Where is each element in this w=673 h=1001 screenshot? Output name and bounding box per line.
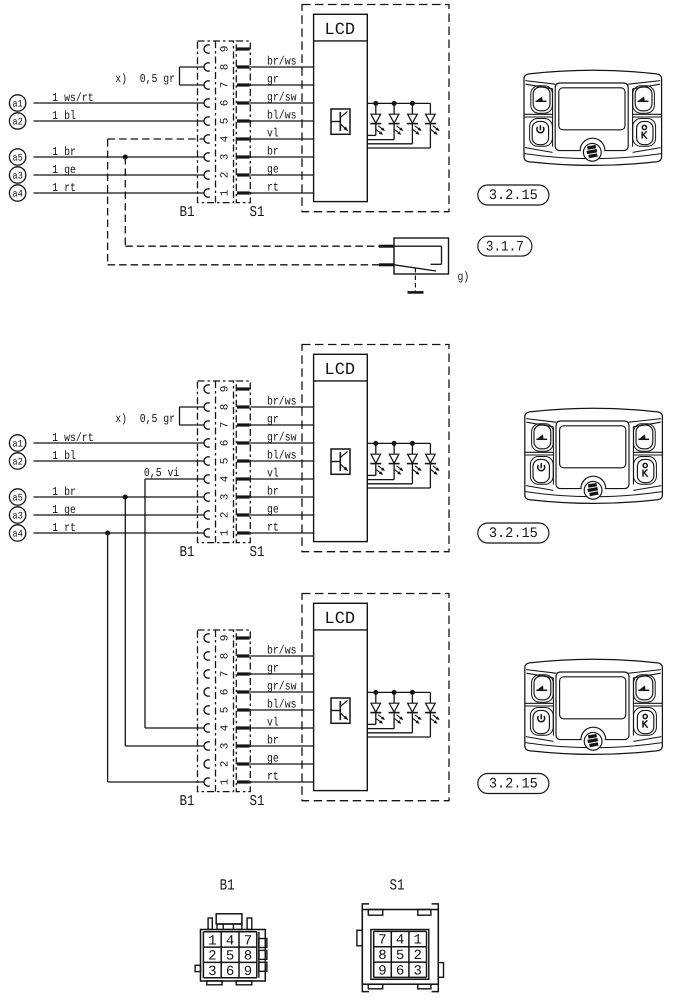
wire 1 ws/rt from a1 to B1 bbox=[34, 91, 204, 105]
panel trim lines (unit 3) bbox=[525, 670, 662, 748]
wire gr/sw from S1 to LCD module (unit 3) bbox=[250, 679, 313, 693]
button long-heat top-right (unit 3) bbox=[634, 675, 656, 702]
svg-text:1 ge: 1 ge bbox=[52, 503, 76, 517]
LED supply bus (unit 1) bbox=[367, 102, 430, 104]
svg-text:3: 3 bbox=[219, 154, 231, 161]
svg-text:g): g) bbox=[458, 270, 470, 284]
photo sensor / driver symbol inside LCD (unit 1) bbox=[331, 109, 350, 134]
svg-text:a5: a5 bbox=[12, 154, 23, 165]
LED 1 indicator (unit 2) bbox=[367, 441, 385, 476]
svg-text:rt: rt bbox=[267, 180, 279, 194]
button power bottom-left (unit 3) bbox=[530, 708, 553, 736]
svg-text:0,5 vi: 0,5 vi bbox=[144, 466, 179, 480]
svg-text:bl/ws: bl/ws bbox=[267, 108, 297, 122]
ground (dashed lead) bbox=[408, 268, 424, 292]
LED supply bus (unit 2) bbox=[367, 442, 430, 444]
svg-text:2: 2 bbox=[219, 512, 231, 519]
dashed wire from junction to switch 3.1.7 bbox=[125, 157, 394, 246]
svg-text:br/ws: br/ws bbox=[267, 643, 297, 657]
wire 1 ws/rt from a1 to B1 bbox=[34, 431, 204, 445]
svg-text:ge: ge bbox=[267, 502, 279, 516]
connector B1 (unit 1): housing with pin sockets 9..1 bbox=[198, 41, 234, 203]
svg-text:S1: S1 bbox=[250, 544, 265, 561]
svg-text:7: 7 bbox=[219, 422, 231, 429]
screen bezel and LCD window (unit 3) bbox=[556, 672, 629, 740]
svg-text:8: 8 bbox=[219, 404, 231, 411]
reference label 3.2.15 (unit 2) bbox=[478, 523, 549, 543]
switch S (component 3.1.7) bbox=[394, 238, 449, 274]
dashed wire from B1 pin4 (vl) to switch 3.1.7 bbox=[108, 139, 394, 265]
wire br from S1 to LCD module (unit 2) bbox=[250, 484, 313, 498]
wire bl/ws from S1 to LCD module (unit 2) bbox=[250, 448, 313, 462]
svg-text:1 rt: 1 rt bbox=[52, 181, 76, 195]
svg-text:8: 8 bbox=[219, 64, 231, 71]
svg-text:0,5 gr: 0,5 gr bbox=[140, 72, 175, 86]
svg-text:LCD: LCD bbox=[325, 610, 356, 629]
button power bottom-left (unit 1) bbox=[530, 119, 553, 147]
wire gr/sw from S1 to LCD module (unit 2) bbox=[250, 430, 313, 444]
control panel (unit 2) bbox=[525, 408, 663, 503]
svg-text:B1: B1 bbox=[180, 204, 195, 221]
node a1: terminal circle bbox=[9, 435, 25, 451]
svg-text:6: 6 bbox=[396, 963, 404, 979]
wire rt from junction down to unit3 B1 pin1 bbox=[108, 533, 204, 782]
svg-text:8: 8 bbox=[244, 949, 252, 965]
jumper loop x) 0,5 gr between B1 pins 8 and 7 bbox=[115, 67, 203, 86]
connector S1 (unit 3): socket strip with 9 contacts bbox=[236, 630, 250, 792]
svg-text:x): x) bbox=[115, 412, 127, 426]
svg-text:gr/sw: gr/sw bbox=[267, 679, 297, 693]
wire br/ws from S1 to LCD module (unit 1) bbox=[250, 54, 313, 68]
svg-text:ge: ge bbox=[267, 162, 279, 176]
svg-text:br: br bbox=[267, 484, 279, 498]
svg-text:br: br bbox=[267, 733, 279, 747]
svg-text:4: 4 bbox=[219, 724, 231, 731]
svg-text:5: 5 bbox=[219, 707, 231, 714]
wire bl/ws from S1 to LCD module (unit 3) bbox=[250, 697, 313, 711]
svg-text:a5: a5 bbox=[12, 494, 23, 505]
button OK bottom-right (unit 2) bbox=[634, 457, 657, 485]
svg-text:8: 8 bbox=[219, 653, 231, 660]
svg-text:3.1.7: 3.1.7 bbox=[486, 239, 524, 255]
wire 1 ge from a3 to B1 bbox=[34, 503, 204, 517]
svg-text:B1: B1 bbox=[220, 877, 235, 895]
control panel (unit 1) bbox=[524, 70, 662, 165]
wire br from S1 to LCD module (unit 1) bbox=[250, 144, 313, 158]
node a1: terminal circle bbox=[9, 95, 25, 111]
control panel body (unit 3) bbox=[525, 659, 663, 754]
node: junction on wire 1 rt (a4, unit 2) bbox=[105, 531, 110, 536]
LED 3 indicator (unit 1) bbox=[367, 101, 421, 144]
LED 3 indicator (unit 3) bbox=[367, 690, 421, 733]
svg-text:rt: rt bbox=[267, 520, 279, 534]
wire 1 rt from a4 to B1 bbox=[34, 521, 204, 535]
svg-text:ge: ge bbox=[267, 751, 279, 765]
connector B1 (unit 3): housing with pin sockets 9..1 bbox=[198, 630, 234, 792]
svg-text:3: 3 bbox=[208, 964, 216, 980]
wire br/ws from S1 to LCD module (unit 3) bbox=[250, 643, 313, 657]
svg-text:6: 6 bbox=[219, 100, 231, 107]
timer module enclosure (dashed boundary, unit 1) bbox=[302, 5, 449, 212]
svg-text:7: 7 bbox=[378, 933, 386, 949]
button long-heat top-left (unit 1) bbox=[531, 86, 553, 113]
svg-text:4: 4 bbox=[219, 475, 231, 482]
svg-text:LCD: LCD bbox=[325, 361, 356, 380]
screen bezel and LCD window (unit 1) bbox=[555, 83, 628, 151]
svg-text:0,5 gr: 0,5 gr bbox=[140, 412, 175, 426]
node a4: terminal circle bbox=[9, 185, 25, 201]
svg-text:1 ge: 1 ge bbox=[52, 163, 76, 177]
svg-text:1: 1 bbox=[219, 778, 231, 785]
central logo button (unit 1) bbox=[580, 138, 605, 161]
wire br from junction down to unit3 B1 pin3 bbox=[125, 497, 203, 746]
wire br from S1 to LCD module (unit 3) bbox=[250, 733, 313, 747]
photo sensor / driver symbol inside LCD (unit 2) bbox=[331, 449, 350, 474]
central logo button (unit 3) bbox=[581, 727, 606, 750]
LCD display block (unit 2) bbox=[314, 354, 368, 541]
svg-text:4: 4 bbox=[396, 933, 404, 949]
svg-text:8: 8 bbox=[378, 948, 386, 964]
svg-text:gr: gr bbox=[267, 412, 279, 426]
svg-text:gr: gr bbox=[267, 72, 279, 86]
svg-text:S1: S1 bbox=[250, 204, 265, 221]
wire gr from S1 to LCD module (unit 2) bbox=[250, 412, 313, 426]
button OK bottom-right (unit 3) bbox=[634, 708, 657, 736]
wire rt from S1 to LCD module (unit 2) bbox=[250, 520, 313, 534]
svg-text:vl: vl bbox=[267, 715, 279, 729]
node: junction on wire 1 br (a5) bbox=[123, 155, 128, 160]
node a5: terminal circle bbox=[9, 489, 25, 505]
wire 1 br from a5 to B1 bbox=[34, 145, 204, 159]
svg-text:4: 4 bbox=[219, 135, 231, 142]
node a5: terminal circle bbox=[9, 149, 25, 165]
svg-text:5: 5 bbox=[219, 458, 231, 465]
wire rt from S1 to LCD module (unit 3) bbox=[250, 769, 313, 783]
svg-text:9: 9 bbox=[244, 964, 252, 980]
svg-text:6: 6 bbox=[226, 964, 234, 980]
wire 1 ge from a3 to B1 bbox=[34, 163, 204, 177]
svg-text:1: 1 bbox=[219, 189, 231, 196]
svg-text:x): x) bbox=[115, 72, 127, 86]
svg-text:2: 2 bbox=[208, 949, 216, 965]
svg-text:2: 2 bbox=[413, 948, 421, 964]
button long-heat top-left (unit 2) bbox=[532, 424, 554, 451]
svg-text:bl/ws: bl/ws bbox=[267, 697, 297, 711]
screen bezel and LCD window (unit 2) bbox=[556, 421, 629, 489]
svg-text:1 bl: 1 bl bbox=[52, 109, 76, 123]
node a3: terminal circle bbox=[9, 507, 25, 523]
svg-text:6: 6 bbox=[219, 440, 231, 447]
button long-heat top-right (unit 1) bbox=[633, 86, 655, 113]
svg-text:a2: a2 bbox=[12, 458, 23, 469]
wire 1 bl from a2 to B1 bbox=[34, 449, 204, 463]
control panel body (unit 2) bbox=[525, 408, 663, 503]
svg-text:5: 5 bbox=[396, 948, 404, 964]
svg-text:1 ws/rt: 1 ws/rt bbox=[52, 431, 93, 445]
connector B1 (unit 2): housing with pin sockets 9..1 bbox=[198, 381, 234, 543]
svg-text:1: 1 bbox=[413, 933, 421, 949]
LED 2 indicator (unit 1) bbox=[367, 101, 403, 140]
svg-text:a1: a1 bbox=[12, 100, 23, 111]
svg-text:3: 3 bbox=[219, 494, 231, 501]
svg-text:9: 9 bbox=[378, 963, 386, 979]
svg-text:br: br bbox=[267, 144, 279, 158]
LED 1 indicator (unit 3) bbox=[367, 690, 385, 725]
LCD display block (unit 3) bbox=[314, 603, 368, 790]
LED 4 indicator (unit 1) bbox=[367, 103, 439, 148]
node a2: terminal circle bbox=[9, 453, 25, 469]
jumper loop x) 0,5 gr between B1 pins 8 and 7 bbox=[115, 407, 203, 426]
svg-text:a4: a4 bbox=[12, 190, 23, 201]
svg-text:3.2.15: 3.2.15 bbox=[489, 188, 538, 204]
LCD display block (unit 1) bbox=[314, 14, 368, 201]
svg-text:B1: B1 bbox=[180, 793, 195, 810]
wire ge from S1 to LCD module (unit 3) bbox=[250, 751, 313, 765]
connector S1 (unit 2): socket strip with 9 contacts bbox=[236, 381, 250, 543]
node a4: terminal circle bbox=[9, 525, 25, 541]
timer module enclosure (dashed boundary, unit 2) bbox=[302, 345, 449, 552]
svg-text:br/ws: br/ws bbox=[267, 394, 297, 408]
svg-text:2: 2 bbox=[219, 761, 231, 768]
wire ge from S1 to LCD module (unit 2) bbox=[250, 502, 313, 516]
connector B1 face view (pin layout) bbox=[195, 877, 267, 985]
svg-text:4: 4 bbox=[226, 933, 234, 949]
svg-text:5: 5 bbox=[226, 949, 234, 965]
LED supply bus (unit 3) bbox=[367, 691, 430, 693]
svg-text:a3: a3 bbox=[12, 172, 23, 183]
svg-text:a3: a3 bbox=[12, 512, 23, 523]
svg-text:gr/sw: gr/sw bbox=[267, 430, 297, 444]
node a3: terminal circle bbox=[9, 167, 25, 183]
panel trim lines (unit 2) bbox=[525, 419, 662, 497]
svg-text:3: 3 bbox=[219, 743, 231, 750]
svg-text:9: 9 bbox=[219, 46, 231, 53]
svg-text:2: 2 bbox=[219, 172, 231, 179]
svg-text:gr: gr bbox=[267, 661, 279, 675]
svg-text:a1: a1 bbox=[12, 440, 23, 451]
svg-text:7: 7 bbox=[219, 82, 231, 89]
svg-text:vl: vl bbox=[267, 126, 279, 140]
svg-text:br/ws: br/ws bbox=[267, 54, 297, 68]
node: junction on wire 1 br (a5, unit 2) bbox=[123, 495, 128, 500]
svg-text:S1: S1 bbox=[390, 877, 405, 895]
wire vl from S1 to LCD module (unit 2) bbox=[250, 466, 313, 480]
svg-text:a4: a4 bbox=[12, 530, 23, 541]
svg-text:1 rt: 1 rt bbox=[52, 521, 76, 535]
svg-text:B1: B1 bbox=[180, 544, 195, 561]
reference label 3.1.7 (switch) bbox=[478, 236, 532, 256]
svg-text:7: 7 bbox=[219, 671, 231, 678]
panel trim lines (unit 1) bbox=[524, 81, 661, 159]
svg-text:a2: a2 bbox=[12, 118, 23, 129]
control panel body (unit 1) bbox=[524, 70, 662, 165]
svg-text:gr/sw: gr/sw bbox=[267, 90, 297, 104]
LED 2 indicator (unit 2) bbox=[367, 441, 403, 480]
LED 1 indicator (unit 1) bbox=[367, 101, 385, 135]
central logo button (unit 2) bbox=[581, 476, 606, 499]
svg-text:1 br: 1 br bbox=[52, 485, 76, 499]
wire bl/ws from S1 to LCD module (unit 1) bbox=[250, 108, 313, 122]
svg-text:9: 9 bbox=[219, 386, 231, 393]
LED 3 indicator (unit 2) bbox=[367, 441, 421, 484]
svg-text:9: 9 bbox=[219, 635, 231, 642]
wire 1 rt from a4 to B1 bbox=[34, 181, 204, 195]
svg-text:1: 1 bbox=[208, 933, 216, 949]
svg-text:rt: rt bbox=[267, 769, 279, 783]
svg-text:5: 5 bbox=[219, 118, 231, 125]
svg-text:LCD: LCD bbox=[325, 21, 356, 40]
button power bottom-left (unit 2) bbox=[530, 457, 553, 485]
wire gr from S1 to LCD module (unit 3) bbox=[250, 661, 313, 675]
connector S1 face view (pin layout) bbox=[357, 877, 444, 992]
svg-text:vl: vl bbox=[267, 466, 279, 480]
control panel (unit 3) bbox=[525, 659, 663, 754]
svg-text:1 bl: 1 bl bbox=[52, 449, 76, 463]
reference label 3.2.15 (unit 1) bbox=[478, 185, 549, 205]
svg-text:1 ws/rt: 1 ws/rt bbox=[52, 91, 93, 105]
svg-text:3.2.15: 3.2.15 bbox=[489, 526, 538, 542]
photo sensor / driver symbol inside LCD (unit 3) bbox=[331, 698, 350, 723]
wire 0.5 vi from unit2 B1 pin4 down to unit3 B1 pin4 bbox=[144, 466, 204, 728]
svg-text:3: 3 bbox=[413, 963, 421, 979]
svg-text:1: 1 bbox=[219, 529, 231, 536]
wire vl from S1 to LCD module (unit 1) bbox=[250, 126, 313, 140]
wire gr from S1 to LCD module (unit 1) bbox=[250, 72, 313, 86]
svg-text:S1: S1 bbox=[250, 793, 265, 810]
LED 2 indicator (unit 3) bbox=[367, 690, 403, 729]
LED 4 indicator (unit 2) bbox=[367, 443, 439, 488]
button long-heat top-right (unit 2) bbox=[634, 424, 656, 451]
button OK bottom-right (unit 1) bbox=[633, 119, 656, 147]
svg-text:6: 6 bbox=[219, 689, 231, 696]
node a2: terminal circle bbox=[9, 113, 25, 129]
reference label 3.2.15 (unit 3) bbox=[478, 774, 549, 794]
wire ge from S1 to LCD module (unit 1) bbox=[250, 162, 313, 176]
wire vl from S1 to LCD module (unit 3) bbox=[250, 715, 313, 729]
wire gr/sw from S1 to LCD module (unit 1) bbox=[250, 90, 313, 104]
button long-heat top-left (unit 3) bbox=[532, 675, 554, 702]
wire rt from S1 to LCD module (unit 1) bbox=[250, 180, 313, 194]
svg-text:bl/ws: bl/ws bbox=[267, 448, 297, 462]
svg-text:7: 7 bbox=[244, 933, 252, 949]
wire 1 bl from a2 to B1 bbox=[34, 109, 204, 123]
svg-text:1 br: 1 br bbox=[52, 145, 76, 159]
wire br/ws from S1 to LCD module (unit 2) bbox=[250, 394, 313, 408]
wire 1 br from a5 to B1 bbox=[34, 485, 204, 499]
svg-text:3.2.15: 3.2.15 bbox=[489, 777, 538, 793]
timer module enclosure (dashed boundary, unit 3) bbox=[302, 594, 449, 801]
connector S1 (unit 1): socket strip with 9 contacts bbox=[236, 41, 250, 203]
LED 4 indicator (unit 3) bbox=[367, 692, 439, 737]
